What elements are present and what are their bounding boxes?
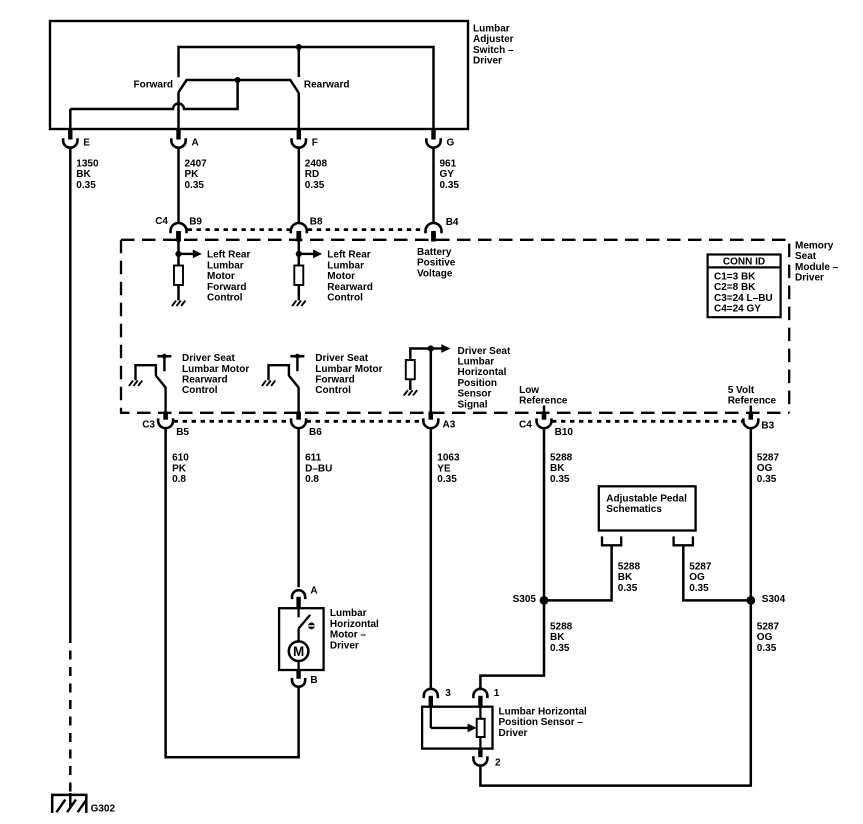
svg-text:S304: S304 <box>762 594 786 605</box>
svg-text:Control: Control <box>207 293 243 304</box>
svg-text:Schematics: Schematics <box>606 504 662 515</box>
svg-text:YE: YE <box>437 463 451 474</box>
svg-text:PK: PK <box>185 169 200 180</box>
svg-text:Position Sensor –: Position Sensor – <box>499 717 584 728</box>
svg-text:Adjuster: Adjuster <box>473 34 514 45</box>
svg-text:0.35: 0.35 <box>757 474 777 485</box>
svg-text:B3: B3 <box>761 420 774 431</box>
svg-text:0.35: 0.35 <box>689 583 709 594</box>
svg-text:Driver Seat: Driver Seat <box>315 353 368 364</box>
svg-text:Positive: Positive <box>417 258 456 269</box>
svg-text:1: 1 <box>494 688 500 699</box>
svg-text:F: F <box>312 137 318 148</box>
svg-text:0.35: 0.35 <box>76 180 96 191</box>
svg-text:5287: 5287 <box>757 621 780 632</box>
svg-text:G302: G302 <box>91 804 116 815</box>
svg-text:0.8: 0.8 <box>172 474 186 485</box>
svg-text:5288: 5288 <box>550 452 573 463</box>
svg-text:Module –: Module – <box>795 262 839 273</box>
svg-text:CONN ID: CONN ID <box>723 256 765 267</box>
svg-text:BK: BK <box>76 169 91 180</box>
svg-text:0.35: 0.35 <box>550 643 570 654</box>
svg-text:B5: B5 <box>176 427 189 438</box>
svg-text:1063: 1063 <box>437 453 460 464</box>
svg-text:GY: GY <box>440 169 455 180</box>
svg-text:Forward: Forward <box>315 375 354 386</box>
svg-text:5287: 5287 <box>689 562 712 573</box>
svg-text:2408: 2408 <box>305 158 328 169</box>
svg-text:961: 961 <box>440 158 457 169</box>
svg-text:Control: Control <box>315 385 351 396</box>
svg-text:Driver: Driver <box>330 640 359 651</box>
svg-text:3: 3 <box>445 688 451 699</box>
svg-text:Motor: Motor <box>207 271 235 282</box>
svg-text:Horizontal: Horizontal <box>330 619 379 630</box>
svg-text:Sensor: Sensor <box>458 389 492 400</box>
svg-text:Seat: Seat <box>795 251 817 262</box>
svg-text:D–BU: D–BU <box>305 463 332 474</box>
svg-text:G: G <box>447 137 455 148</box>
svg-text:B10: B10 <box>555 427 574 438</box>
svg-text:0.35: 0.35 <box>437 474 457 485</box>
svg-text:611: 611 <box>305 453 322 464</box>
svg-text:Control: Control <box>182 385 218 396</box>
svg-text:Lumbar: Lumbar <box>327 260 364 271</box>
svg-text:5288: 5288 <box>550 621 573 632</box>
svg-text:Battery: Battery <box>417 247 452 258</box>
svg-text:1350: 1350 <box>76 158 99 169</box>
svg-text:Reference: Reference <box>519 396 568 407</box>
svg-text:Voltage: Voltage <box>417 268 453 279</box>
svg-text:BK: BK <box>550 632 565 643</box>
svg-text:0.35: 0.35 <box>618 583 638 594</box>
svg-text:0.35: 0.35 <box>185 180 205 191</box>
svg-text:Motor –: Motor – <box>330 630 367 641</box>
svg-text:A3: A3 <box>443 420 456 431</box>
svg-text:Switch –: Switch – <box>473 45 514 56</box>
svg-text:S305: S305 <box>513 594 537 605</box>
svg-text:C4=24 GY: C4=24 GY <box>714 304 761 315</box>
svg-text:Rearward: Rearward <box>304 80 350 91</box>
svg-text:0.35: 0.35 <box>305 180 325 191</box>
svg-text:Driver: Driver <box>473 56 502 67</box>
svg-text:B4: B4 <box>446 217 459 228</box>
svg-text:Rearward: Rearward <box>182 375 228 386</box>
svg-text:Lumbar Motor: Lumbar Motor <box>315 364 382 375</box>
svg-text:Lumbar: Lumbar <box>207 260 244 271</box>
svg-text:Reference: Reference <box>728 396 777 407</box>
svg-text:Memory: Memory <box>795 241 834 252</box>
svg-text:Signal: Signal <box>458 399 488 410</box>
svg-text:B9: B9 <box>189 216 202 227</box>
svg-text:Low: Low <box>519 385 539 396</box>
svg-text:Position: Position <box>458 378 497 389</box>
svg-text:OG: OG <box>757 632 773 643</box>
svg-text:M: M <box>293 644 304 659</box>
svg-text:2407: 2407 <box>185 158 208 169</box>
svg-text:Motor: Motor <box>327 271 355 282</box>
svg-text:RD: RD <box>305 169 319 180</box>
svg-text:Control: Control <box>327 293 363 304</box>
svg-text:5288: 5288 <box>618 562 641 573</box>
svg-text:Forward: Forward <box>134 80 173 91</box>
svg-text:C4: C4 <box>519 420 532 431</box>
svg-text:C2=8 BK: C2=8 BK <box>714 282 756 293</box>
svg-text:C3: C3 <box>142 419 155 430</box>
svg-text:Lumbar Motor: Lumbar Motor <box>182 364 249 375</box>
svg-text:Horizontal: Horizontal <box>458 367 507 378</box>
svg-text:OG: OG <box>689 572 705 583</box>
svg-text:A: A <box>310 586 317 597</box>
svg-text:0.35: 0.35 <box>440 180 460 191</box>
svg-text:0.8: 0.8 <box>305 474 319 485</box>
svg-text:Driver: Driver <box>795 273 824 284</box>
svg-text:Left Rear: Left Rear <box>327 250 370 261</box>
svg-text:Lumbar Horizontal: Lumbar Horizontal <box>499 706 588 717</box>
svg-text:Forward: Forward <box>207 282 246 293</box>
svg-text:Left Rear: Left Rear <box>207 250 250 261</box>
svg-text:E: E <box>83 137 90 148</box>
svg-text:PK: PK <box>172 463 187 474</box>
svg-text:0.35: 0.35 <box>757 643 777 654</box>
svg-text:C4: C4 <box>155 216 168 227</box>
svg-text:BK: BK <box>618 572 633 583</box>
svg-text:BK: BK <box>550 463 565 474</box>
svg-text:5 Volt: 5 Volt <box>728 385 755 396</box>
svg-text:Lumbar: Lumbar <box>473 24 510 35</box>
svg-text:Lumbar: Lumbar <box>458 357 495 368</box>
svg-text:2: 2 <box>495 758 501 769</box>
svg-text:B8: B8 <box>310 216 323 227</box>
svg-text:OG: OG <box>757 463 773 474</box>
svg-text:Rearward: Rearward <box>327 282 373 293</box>
svg-text:Lumbar: Lumbar <box>330 608 367 619</box>
svg-text:C1=3 BK: C1=3 BK <box>714 271 756 282</box>
svg-text:A: A <box>192 137 199 148</box>
svg-text:Driver Seat: Driver Seat <box>182 353 235 364</box>
svg-text:B: B <box>310 675 317 686</box>
svg-text:B6: B6 <box>309 427 322 438</box>
svg-text:0.35: 0.35 <box>550 474 570 485</box>
svg-text:Adjustable Pedal: Adjustable Pedal <box>606 493 687 504</box>
svg-text:610: 610 <box>172 453 189 464</box>
svg-text:C3=24 L–BU: C3=24 L–BU <box>714 293 773 304</box>
svg-text:Driver: Driver <box>499 728 528 739</box>
svg-text:5287: 5287 <box>757 452 780 463</box>
svg-text:Driver Seat: Driver Seat <box>458 346 511 357</box>
